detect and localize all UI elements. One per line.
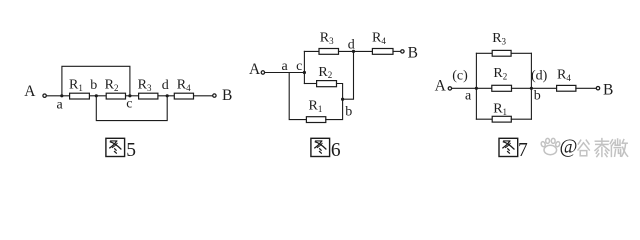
wire bottom row left (fig7)	[476, 118, 492, 120]
svg-text:(c): (c)	[452, 69, 468, 84]
svg-text:R4: R4	[372, 31, 386, 46]
resistor R1 (fig7)	[492, 116, 511, 122]
svg-text:R1: R1	[493, 102, 507, 117]
top bypass wire a to c (fig5)	[62, 66, 130, 96]
wire bottom row right (fig7)	[511, 118, 531, 120]
terminal A circle (fig7)	[448, 87, 451, 90]
resistor R2 (fig6)	[317, 81, 337, 87]
wire A to a (fig7)	[452, 87, 476, 89]
node b (fig5)	[95, 94, 98, 97]
svg-text:B: B	[408, 44, 418, 61]
svg-text:R2: R2	[105, 78, 119, 93]
node b (fig6)	[341, 98, 344, 101]
terminal A circle (fig5)	[43, 94, 46, 97]
wire R2 to node b (fig6)	[337, 84, 343, 100]
wire c to R2 (fig6)	[304, 83, 316, 85]
terminal B circle (fig7)	[596, 87, 599, 90]
terminal B circle (fig6)	[401, 50, 404, 53]
svg-text:(d): (d)	[531, 69, 548, 84]
svg-text:6: 6	[331, 140, 341, 161]
resistor R3 (fig5)	[139, 93, 158, 99]
wire d to R4 (fig6)	[354, 50, 373, 52]
svg-text:c: c	[296, 59, 302, 74]
wire R4 to B (fig7)	[576, 87, 596, 89]
svg-text:R2: R2	[493, 66, 507, 81]
svg-text:A: A	[435, 78, 447, 95]
bottom bypass wire b to d (fig5)	[96, 96, 167, 121]
watermark char gu (谷)	[578, 140, 589, 156]
resistor R2 (fig7)	[492, 85, 512, 91]
svg-text:R3: R3	[320, 31, 334, 46]
wire a down-left branch (fig6)	[289, 73, 306, 120]
svg-text:a: a	[57, 97, 64, 112]
terminal A circle (fig6)	[261, 71, 264, 74]
svg-text:d: d	[162, 78, 169, 93]
wire A to c (fig6)	[265, 72, 305, 74]
node a (fig7)	[475, 87, 478, 90]
node d (fig5)	[166, 94, 169, 97]
svg-text:d: d	[348, 38, 355, 53]
wire R4 to B (fig5)	[194, 95, 213, 97]
wire mid row left (fig7)	[476, 87, 491, 89]
svg-text:A: A	[249, 61, 261, 78]
right vertical bus (fig7)	[530, 53, 532, 119]
svg-text:R1: R1	[69, 78, 83, 93]
svg-text:7: 7	[518, 140, 528, 161]
wire b to R4 (fig7)	[531, 87, 556, 89]
svg-text:c: c	[126, 96, 132, 111]
svg-text:R2: R2	[318, 65, 332, 80]
svg-text:A: A	[24, 83, 36, 100]
wire c to R3 (fig6)	[304, 50, 319, 52]
svg-text:R3: R3	[138, 78, 152, 93]
wire R4 to B (fig6)	[393, 50, 401, 52]
resistor R4 (fig6)	[372, 49, 393, 55]
caption fig5	[106, 138, 136, 161]
svg-text:b: b	[90, 78, 97, 93]
node c (fig5)	[128, 94, 131, 97]
resistor R3 (fig7)	[492, 50, 511, 56]
resistor R2 (fig5)	[106, 93, 125, 99]
resistor R4 (fig5)	[174, 93, 193, 99]
wire top row right (fig7)	[511, 52, 531, 54]
caption fig6	[311, 138, 341, 161]
svg-text:a: a	[465, 89, 472, 104]
wire mid row right (fig7)	[512, 87, 532, 89]
svg-text:a: a	[282, 59, 289, 74]
svg-text:B: B	[222, 87, 232, 104]
wire c vertical R3-row to R2-row (fig6)	[303, 51, 305, 83]
wire R3 to R4 (fig5)	[158, 95, 174, 97]
svg-text:5: 5	[126, 140, 136, 161]
watermark char tai (泰)	[595, 139, 609, 157]
terminal B circle (fig5)	[213, 94, 216, 97]
svg-text:B: B	[603, 81, 613, 98]
wire R3 to d (fig6)	[339, 50, 354, 52]
caption fig7	[499, 138, 528, 161]
wire b up to d (fig6)	[343, 51, 354, 99]
svg-text:R4: R4	[177, 78, 191, 93]
wire R1 to node b (fig6)	[326, 99, 343, 119]
node a (fig5)	[60, 94, 63, 97]
svg-text:R4: R4	[557, 68, 571, 83]
node b (fig7)	[530, 87, 533, 90]
svg-text:b: b	[534, 89, 541, 104]
node d (fig6)	[352, 50, 355, 53]
wire R2 to R3 (fig5)	[126, 95, 139, 97]
wire A to R1 (fig5)	[47, 95, 70, 97]
resistor R1 (fig6)	[306, 117, 325, 123]
resistor R4 (fig7)	[557, 85, 576, 91]
svg-text:b: b	[345, 105, 352, 120]
svg-text:R3: R3	[492, 31, 506, 46]
watermark paw icon	[540, 138, 560, 154]
left vertical bus (fig7)	[475, 53, 477, 119]
svg-text:@: @	[560, 136, 578, 157]
watermark char wei (微)	[610, 139, 627, 156]
wire R1 to R2 (fig5)	[89, 95, 106, 97]
wire top row left (fig7)	[476, 52, 492, 54]
node c junction dot (fig6)	[303, 71, 306, 74]
resistor R1 (fig5)	[70, 93, 90, 99]
resistor R3 (fig6)	[319, 49, 339, 55]
svg-text:R1: R1	[309, 99, 323, 114]
